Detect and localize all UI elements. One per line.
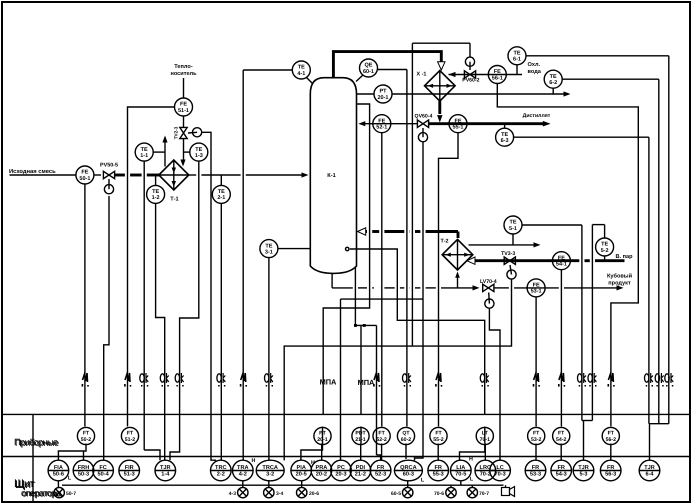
svg-text:PIA: PIA: [297, 465, 306, 471]
svg-text:20-6: 20-6: [309, 491, 319, 497]
lamp 4-3: [238, 487, 248, 497]
wire TE 5-2 stub up: [604, 225, 606, 238]
wire TE 6-2 signal right: [562, 78, 659, 80]
wire PV50-5 control line: [104, 196, 109, 460]
flow element FE 55-1: [449, 115, 467, 133]
lamp 3-4: [264, 487, 274, 497]
svg-text:70-3: 70-3: [494, 471, 505, 477]
wire column to PT 20-1: [357, 93, 375, 95]
recorder FR 56-3: [600, 460, 621, 481]
svg-text:20-2: 20-2: [316, 471, 327, 477]
svg-text:Т-1: Т-1: [170, 196, 178, 202]
svg-text:К-1: К-1: [327, 173, 335, 179]
wire TE 3-1 stub to column: [278, 248, 310, 250]
svg-text:56-3: 56-3: [605, 471, 616, 477]
svg-text:FRH: FRH: [78, 465, 90, 471]
svg-text:Исходная смесь: Исходная смесь: [9, 169, 56, 175]
flow element FE 52-1: [373, 115, 391, 133]
svg-text:Охл.: Охл.: [528, 62, 541, 68]
wire bottoms left part: [332, 287, 475, 289]
svg-text:20-5: 20-5: [296, 471, 307, 477]
wire FT 56-2 to FR 56-3: [610, 444, 612, 461]
svg-text:ТЕ: ТЕ: [509, 220, 516, 226]
wire through T-1 horizontal: [159, 174, 189, 176]
svg-text:20-1: 20-1: [317, 437, 327, 443]
wire FE 52-1 signal down: [381, 133, 383, 427]
svg-text:X -1: X -1: [417, 72, 427, 78]
wire FE 51-1 signal down: [128, 107, 175, 427]
line tag at x=659.6: [655, 373, 664, 387]
wire TE 1-2 stub up: [155, 175, 157, 185]
wire TE 1-2 signal down: [156, 203, 165, 460]
transmitter PDT 21-1: [352, 427, 369, 444]
svg-text:50-6: 50-6: [53, 471, 64, 477]
controller TRC 2-2: [211, 460, 232, 481]
arrow inside T-2 left: [445, 253, 451, 257]
svg-text:ТЕ: ТЕ: [265, 243, 272, 249]
arrow cooling water out: [564, 91, 571, 96]
wire QT 60-2 to QRCA 60-3: [405, 444, 407, 460]
indicator LIA 70-5: [451, 460, 472, 481]
recorder TJR 1-4: [155, 460, 176, 481]
line tag at x=581.9: [578, 373, 587, 387]
svg-text:PV50-5: PV50-5: [100, 163, 118, 169]
svg-text:Тепло-: Тепло-: [174, 64, 193, 70]
wire TRCA to lamp 3-4: [268, 481, 270, 488]
transmitter FT 56-2: [602, 427, 619, 444]
band line: top of Щит оператора band: [3, 456, 690, 458]
wire PT jog to PIA 20-5: [301, 444, 323, 461]
line tag at x=561.4: [558, 373, 565, 387]
svg-text:FE: FE: [454, 118, 461, 124]
svg-text:70-2: 70-2: [480, 471, 491, 477]
svg-text:ТЕ: ТЕ: [601, 242, 608, 248]
controller QRCA 60-3: [394, 460, 422, 481]
svg-text:51-1: 51-1: [178, 108, 189, 114]
indicator FIA 50-6: [48, 460, 69, 481]
arrow inside X-1 right: [447, 84, 453, 88]
line tag at x=85: [82, 373, 89, 387]
flow element FE 54-1: [552, 252, 570, 270]
svg-text:FR: FR: [607, 465, 614, 471]
svg-text:FR: FR: [557, 465, 564, 471]
svg-text:FE: FE: [558, 255, 565, 261]
svg-text:FT: FT: [533, 431, 540, 437]
svg-text:60-5: 60-5: [391, 491, 401, 497]
svg-text:54-2: 54-2: [556, 437, 566, 443]
wire TE 6-2 stub down: [552, 88, 554, 94]
wire alarm line to lamp 70-6: [450, 485, 452, 487]
svg-text:LC: LC: [496, 465, 503, 471]
wire TJR 6-4 stair: [650, 423, 669, 425]
wire to PDI 21-2: [360, 444, 362, 461]
temperature element TE 1-3: [190, 143, 208, 161]
wire to TJR 5-3: [583, 421, 585, 461]
svg-text:4-2: 4-2: [239, 471, 247, 477]
temperature element TE 2-1: [212, 185, 230, 203]
wire bottoms to product out: [494, 287, 618, 289]
line tag at x=221.3: [217, 373, 225, 387]
transmitter FT 55-2: [430, 427, 447, 444]
wire level tap to LT 70-1: [350, 249, 485, 414]
svg-text:FT: FT: [435, 431, 442, 437]
wire QRCA to lamp 60-5: [407, 481, 409, 488]
svg-text:LIA: LIA: [456, 465, 465, 471]
svg-text:70-7: 70-7: [479, 491, 489, 497]
wire T-2 horizontal interior: [442, 254, 473, 256]
svg-text:50-7: 50-7: [66, 491, 76, 497]
svg-text:продукт: продукт: [608, 281, 631, 287]
wire FT 52-2 to FR 52-3: [381, 444, 383, 461]
svg-text:20-3: 20-3: [335, 471, 346, 477]
svg-text:FE: FE: [533, 283, 540, 289]
band line: top of Приборные band: [3, 413, 690, 415]
transmitter FT 51-2: [121, 427, 138, 444]
svg-text:TRC: TRC: [215, 465, 227, 471]
recorder FR 52-3: [370, 460, 391, 481]
wire TE 1-3 signal down: [170, 161, 199, 460]
wire QE 60-1 trunk down: [406, 70, 408, 427]
hollow arrow into X-1 top: [438, 62, 445, 70]
wire FE 55-1 signal down: [439, 133, 459, 427]
wire through T-1 vertical: [173, 161, 175, 190]
valve TV2-3: [180, 127, 187, 138]
temperature element TE 6-3: [496, 128, 514, 146]
line tag at x=648.9: [645, 373, 654, 387]
wire PD tap A: [355, 267, 376, 326]
arrow cooling water into X-1: [449, 72, 456, 77]
valve QV60-4: [417, 120, 428, 127]
recorder FIR 51-3: [119, 460, 140, 481]
svg-text:53-3: 53-3: [530, 471, 541, 477]
arrow into T-2 bottom: [455, 272, 460, 278]
wire TRC 2-2 to TV2-3 control: [202, 132, 216, 460]
valve PV60-2: [464, 71, 475, 78]
wire FE 53-1 signal down: [535, 297, 537, 427]
wire TE 4-1 signal down: [242, 70, 244, 460]
wire to PRA 20-2: [321, 444, 323, 461]
line tag at x=127.5: [124, 373, 131, 387]
temperature element TE 1-2: [147, 185, 165, 203]
svg-text:PDT: PDT: [355, 431, 366, 437]
svg-text:54-1: 54-1: [556, 262, 567, 268]
flow element FE 51-1: [175, 98, 193, 116]
condenser X-1: [425, 71, 456, 102]
actuator of LV70-4: [485, 293, 494, 309]
wire TV3-3 control line: [284, 279, 511, 460]
analyzer element QE 60-1: [360, 59, 378, 77]
wire TE 5-2 jog left: [592, 224, 604, 226]
wire to FR 52-3 jog: [377, 455, 381, 460]
thick line X-1 bottom to distillate header: [438, 101, 441, 114]
controller PC 20-3: [331, 460, 352, 481]
actuator of TV3-3: [507, 265, 516, 279]
wire TE 1-3 stub: [184, 151, 190, 153]
arrow reflux into K-1: [358, 121, 365, 126]
wire x377 into band: [376, 414, 378, 455]
svg-text:70-6: 70-6: [434, 491, 444, 497]
svg-text:ТЕ: ТЕ: [218, 189, 225, 195]
svg-text:53-1: 53-1: [531, 289, 542, 295]
svg-text:5-1: 5-1: [509, 226, 517, 232]
wire PC 20-3 line: [340, 299, 342, 460]
wire T-1 vent up: [164, 152, 166, 166]
arrow heating into T-1: [180, 160, 185, 167]
svg-text:70-5: 70-5: [455, 471, 466, 477]
arrow inside T-2 right: [464, 253, 470, 257]
svg-text:50-3: 50-3: [78, 471, 89, 477]
svg-text:55-2: 55-2: [433, 437, 443, 443]
junction dots: [354, 324, 357, 327]
wire T-2 outlet right: [469, 244, 537, 246]
wire TE 5-2 stub down to steam line: [604, 256, 606, 261]
actuator of QV60-4: [418, 128, 427, 142]
line tag at x=144.2: [140, 373, 149, 387]
wire FT 54-2 to FR 54-3: [560, 444, 562, 461]
wire TE 1-1 to vent line: [153, 151, 165, 153]
arrow X-1 outlet down: [437, 115, 442, 122]
svg-text:FIA: FIA: [54, 465, 63, 471]
arrow T-1 vent: [162, 136, 167, 143]
svg-text:60-3: 60-3: [403, 472, 414, 478]
temperature element TE 4-1: [292, 61, 310, 79]
hollow arrow vapor return into K-1: [358, 228, 366, 235]
wire cooling water line: [449, 74, 523, 76]
overhead vapor line thick: [333, 52, 441, 77]
svg-text:2-2: 2-2: [217, 471, 225, 477]
line tag at x=164.7: [160, 373, 169, 387]
svg-text:H: H: [252, 458, 256, 464]
flow element FE 50-1: [76, 166, 94, 184]
wire to PDT 21-1: [360, 325, 362, 414]
line tag at x=536.1: [533, 373, 540, 387]
wire horizontal to QV line: [341, 298, 424, 300]
wire TE 5-1 trunk down: [581, 225, 583, 421]
svg-text:5-2: 5-2: [601, 248, 609, 254]
wire TV2-3 to T-1: [183, 139, 185, 161]
wire PT band to PRA 20-2: [322, 427, 324, 444]
svg-text:54-3: 54-3: [556, 471, 567, 477]
recorder FR 53-3: [525, 460, 546, 481]
wire T-2 vertical interior: [457, 239, 459, 270]
svg-text:FT: FT: [83, 431, 90, 437]
wire bottoms up to T-2: [457, 274, 459, 288]
temperature element TE 3-1: [260, 240, 278, 258]
alarm TRA 4-2: [233, 460, 254, 481]
svg-text:FT: FT: [378, 431, 385, 437]
recorder TJR 6-4: [639, 460, 660, 481]
wire FE 56-1 signal staircase: [497, 84, 638, 427]
wire QE 60-1 diagonal stub to dome: [356, 75, 363, 82]
wire TRA to lamp 4-3: [242, 481, 244, 488]
arrow inside X-1 left: [428, 84, 434, 88]
svg-text:Кубовый: Кубовый: [607, 273, 633, 280]
wire PIA to lamp 20-6: [301, 481, 303, 488]
thick distillate line: [429, 122, 545, 125]
wire cooling water outlet: [392, 93, 566, 95]
wire control line to PV60-2: [412, 42, 470, 44]
arrow inside T-1 upper: [172, 168, 176, 174]
svg-text:20-1: 20-1: [377, 95, 388, 101]
line tag at x=484.7: [480, 373, 489, 387]
svg-text:H: H: [469, 457, 473, 463]
lamp 60-5: [403, 487, 413, 497]
actuator of TV2-3: [188, 128, 202, 137]
transmitter FT 53-2: [528, 427, 545, 444]
svg-text:В. пар: В. пар: [615, 254, 633, 260]
wire alarm common line: [62, 484, 504, 486]
wire QE 60-1 signal right: [378, 69, 407, 71]
svg-text:FT: FT: [608, 431, 615, 437]
svg-text:4-3: 4-3: [229, 491, 236, 497]
svg-text:Т-2: Т-2: [440, 239, 448, 245]
wire FT 55-2 to FR 55-3: [437, 444, 439, 461]
wire FT 53-2 to FR 53-3: [535, 444, 537, 461]
svg-text:56-1: 56-1: [492, 75, 503, 81]
temperature element TE 6-2: [544, 70, 562, 88]
svg-text:FE: FE: [494, 69, 501, 75]
svg-text:3-2: 3-2: [266, 472, 274, 478]
heat exchanger T-1: [159, 160, 189, 190]
transmitter FT 54-2: [553, 427, 570, 444]
lamp 50-7: [54, 487, 64, 497]
temperature element TE 1-1: [135, 143, 153, 161]
line tag at x=268.9: [265, 373, 274, 387]
wire TE 4-1 diagonal stub to dome: [307, 78, 313, 84]
svg-text:21-1: 21-1: [355, 437, 365, 443]
band left column divider: [32, 414, 34, 501]
wire Тепло-носитель down to FE 51-1: [183, 78, 185, 98]
svg-text:ТЕ: ТЕ: [195, 147, 202, 153]
svg-text:TJR: TJR: [578, 465, 589, 471]
column K-1 vessel: [310, 78, 356, 274]
wire pressure tap staircase to band: [323, 104, 369, 414]
wire TE 3-1 signal down: [268, 258, 270, 461]
wire TE 5-1 stub down: [512, 234, 514, 245]
flow element FE 56-1: [488, 66, 506, 84]
transmitter LT 70-1: [476, 427, 493, 444]
wire alarm line to lamp 70-7: [471, 485, 473, 487]
line tag at x=438.5: [435, 373, 442, 387]
wire TE 4-1 signal left: [243, 69, 292, 71]
svg-text:TRA: TRA: [237, 465, 249, 471]
svg-text:ТЕ: ТЕ: [141, 147, 148, 153]
svg-text:PT: PT: [379, 89, 387, 95]
line tag at x=406.9: [403, 373, 412, 387]
svg-text:PC: PC: [337, 465, 345, 471]
lamp 70-7: [467, 487, 477, 497]
svg-text:ТЕ: ТЕ: [550, 74, 557, 80]
svg-text:FC: FC: [99, 465, 106, 471]
level tap nozzle circle: [346, 247, 349, 250]
transmitter FT 52-2: [373, 427, 390, 444]
controller LC 70-3: [490, 460, 511, 481]
svg-text:ТЕ: ТЕ: [501, 132, 508, 138]
svg-text:QE: QE: [365, 63, 373, 69]
wire feed to valve PV50-5: [94, 174, 101, 176]
wire bottoms from K-1 down: [331, 274, 333, 288]
wire feed thick PV50-5 to T-1 with crossing breaks: [115, 174, 159, 177]
wire QRCA to QV60-4 control: [415, 142, 424, 461]
svg-text:1-4: 1-4: [161, 471, 170, 477]
hollow arrow steam into T-2: [467, 257, 475, 264]
line tag at x=179.6: [175, 373, 184, 387]
svg-text:6-1: 6-1: [513, 57, 521, 63]
wire feed line left: [10, 174, 77, 176]
wire T-1 vent upper: [164, 140, 166, 152]
svg-text:PRA: PRA: [315, 465, 327, 471]
svg-text:TJR: TJR: [644, 465, 655, 471]
temperature element TE 6-1: [508, 47, 526, 65]
svg-text:МПА: МПА: [358, 378, 375, 387]
controller FC 50-4: [93, 460, 114, 481]
controller TRCA 3-2: [256, 460, 284, 481]
wire LV70-4 control from LC 70-3: [489, 308, 500, 460]
line tag at x=610.9: [608, 373, 615, 387]
wire steam thick: [472, 259, 625, 262]
transmitter PT 20-1 panel: [314, 427, 331, 444]
svg-text:1-2: 1-2: [152, 195, 160, 201]
svg-text:ТЕ: ТЕ: [513, 51, 520, 57]
wire to LRC 70-2: [484, 444, 486, 461]
svg-text:LT: LT: [482, 431, 489, 437]
valve TV3-3: [504, 257, 515, 264]
svg-text:FE: FE: [180, 102, 187, 108]
svg-text:51-2: 51-2: [125, 437, 135, 443]
svg-text:50-4: 50-4: [97, 471, 109, 477]
svg-text:QV60-4: QV60-4: [415, 113, 433, 119]
svg-text:FR: FR: [434, 465, 441, 471]
arrow inside T-1 lower: [172, 181, 176, 187]
svg-text:60-1: 60-1: [363, 69, 374, 75]
svg-text:1-1: 1-1: [140, 153, 148, 159]
svg-text:PT: PT: [319, 431, 326, 437]
svg-text:ТЕ: ТЕ: [298, 65, 305, 71]
svg-text:53-2: 53-2: [531, 437, 541, 443]
svg-text:70-1: 70-1: [480, 437, 490, 443]
wire TE 6-1 trunk down: [668, 56, 670, 424]
svg-text:60-2: 60-2: [401, 437, 411, 443]
arrow bottoms to LV70-4: [473, 285, 480, 290]
svg-text:TJR: TJR: [160, 465, 171, 471]
wire TE 6-3 stub up: [504, 124, 506, 129]
wire TE 1-1 signal down: [143, 161, 145, 450]
svg-text:55-1: 55-1: [452, 125, 463, 131]
transmitter QT 60-2: [397, 427, 414, 444]
svg-text:вода: вода: [528, 69, 542, 75]
svg-text:QT: QT: [402, 431, 410, 437]
wire TE 6-3 trunk down: [648, 137, 650, 424]
wire TE 2-1 stub up: [220, 175, 222, 185]
svg-text:4-1: 4-1: [297, 71, 305, 77]
wire PDT 21-1 down: [360, 427, 362, 444]
reboiler T-2: [442, 239, 473, 270]
wire LT 70-1 down: [484, 427, 486, 444]
wire FE 50-1 signal down: [84, 184, 86, 427]
svg-text:ТЕ: ТЕ: [152, 189, 159, 195]
wire FE 51-1 to valve TV2-3: [183, 116, 185, 127]
wire FIA to lamp 50-7: [57, 481, 59, 488]
recorder TJR 5-3: [573, 460, 594, 481]
svg-text:FT: FT: [127, 431, 134, 437]
arrow T-2 outlet: [534, 242, 541, 247]
valve PV50-5: [103, 171, 114, 178]
svg-text:6-4: 6-4: [645, 471, 654, 477]
recorder FR 55-3: [428, 460, 449, 481]
pressure transmitter PT 20-1: [374, 85, 392, 103]
svg-text:TV3-3: TV3-3: [501, 251, 515, 257]
svg-text:52-3: 52-3: [375, 471, 386, 477]
